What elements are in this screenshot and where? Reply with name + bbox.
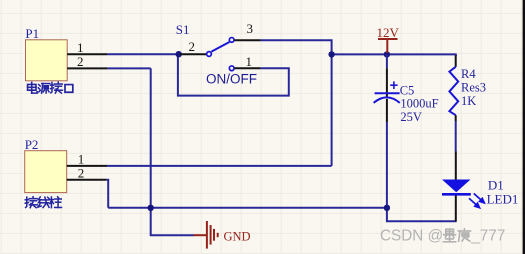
capacitor C5 plus sign — [390, 81, 397, 89]
connector P1 — [26, 40, 68, 81]
svg-text:P1: P1 — [25, 26, 39, 41]
wire GND net horizontal — [108, 207, 387, 209]
svg-text:LED1: LED1 — [487, 192, 519, 207]
LED D1 light arrow 1 — [474, 194, 485, 203]
wire bottom path to LED cathode — [387, 208, 457, 222]
svg-text:C5: C5 — [400, 83, 415, 97]
S1 pin 1 terminal circle — [229, 66, 234, 71]
wire R4 bottom to LED top — [455, 121, 457, 152]
junction S1 pin2 node — [176, 51, 182, 57]
LED D1 pin top (anode) — [455, 152, 457, 180]
svg-text:P2: P2 — [25, 137, 39, 152]
resistor R4 pin top — [455, 56, 457, 67]
P1 comment 电源接口 — [28, 82, 73, 93]
junction rail x331 — [328, 51, 334, 57]
LED D1 light arrow 2 — [469, 198, 480, 207]
capacitor C5 pin bottom — [386, 99, 388, 122]
svg-text:1: 1 — [77, 40, 84, 55]
svg-text:R4: R4 — [461, 67, 476, 81]
wire P2.2 down to GND net — [106, 180, 108, 208]
capacitor C5 pin 1 (top) — [386, 68, 388, 97]
S1 lever — [211, 42, 229, 52]
junction GND net x387 — [384, 205, 390, 211]
S1 pin 2 stub — [180, 53, 207, 55]
svg-text:3: 3 — [247, 21, 254, 36]
wire vertical x150.7 P1.2 down to GND net — [150, 68, 152, 207]
svg-text:2: 2 — [78, 166, 85, 181]
ground symbol stem — [194, 234, 207, 236]
svg-text:ON/OFF: ON/OFF — [206, 71, 257, 86]
svg-text:Res3: Res3 — [461, 80, 486, 94]
P2 pin 1 — [67, 165, 107, 167]
ground bar 1 — [206, 221, 208, 249]
wire C5 bottom — [386, 122, 388, 208]
wire to GND symbol — [151, 208, 194, 235]
P2 comment 接线柱 — [25, 197, 61, 208]
ground bar 4 — [217, 233, 219, 237]
connector P2 — [25, 151, 67, 193]
wire S1.3 to rail corner — [261, 40, 332, 54]
S1 pin 1 stub — [234, 67, 260, 69]
LED D1 triangle — [442, 180, 471, 193]
svg-text:1000uF: 1000uF — [400, 97, 438, 111]
svg-text:12V: 12V — [377, 25, 400, 40]
wire S1.1 loop back to pin2 net — [178, 54, 289, 95]
S1 pin 3 stub — [234, 39, 260, 41]
svg-text:1: 1 — [78, 152, 85, 167]
svg-text:CSDN @: CSDN @ — [380, 227, 443, 244]
svg-text:S1: S1 — [176, 22, 190, 37]
wire vertical x331.6 down to P2.1 — [331, 54, 333, 165]
resistor R4 zigzag — [449, 67, 458, 115]
svg-text:_777: _777 — [470, 227, 505, 244]
power port 12V bar — [378, 38, 398, 40]
S1 pin 3 terminal circle — [229, 38, 234, 43]
junction 12V node — [384, 51, 390, 57]
wire P1.2 horizontal to x150.7 — [107, 67, 150, 69]
wire rail corner down to R4 — [455, 54, 457, 56]
P2 pin 2 — [67, 179, 107, 181]
wire 12V rail — [332, 53, 457, 55]
resistor R4 pin bottom — [455, 115, 457, 121]
P1 pin 2 — [67, 67, 107, 69]
right edge black strip — [523, 0, 525, 254]
wire P1.1 to S1 junction — [107, 53, 178, 55]
watermark CSDN @墨痕_777 — [380, 227, 505, 244]
svg-text:2: 2 — [189, 39, 196, 54]
svg-text:1: 1 — [246, 54, 253, 69]
LED D1 cathode bar — [442, 193, 471, 196]
svg-text:25V: 25V — [400, 110, 422, 124]
junction GND net x150 — [148, 205, 154, 211]
capacitor C5 bottom plate arc — [374, 97, 400, 103]
power port 12V stem — [386, 39, 388, 53]
ground bar 2 — [210, 225, 212, 245]
capacitor C5 top plate — [375, 92, 400, 94]
svg-text:1K: 1K — [461, 94, 476, 108]
svg-text:GND: GND — [224, 229, 251, 243]
wire 12V node down to C5 — [386, 54, 388, 68]
LED D1 pin bottom — [455, 196, 457, 222]
S1 pin 2 terminal circle — [207, 52, 212, 57]
svg-text:D1: D1 — [488, 178, 504, 193]
ground bar 3 — [213, 229, 215, 241]
svg-text:2: 2 — [77, 54, 84, 69]
P1 pin 1 — [67, 53, 107, 55]
wire P2.1 to vertical — [107, 165, 332, 167]
